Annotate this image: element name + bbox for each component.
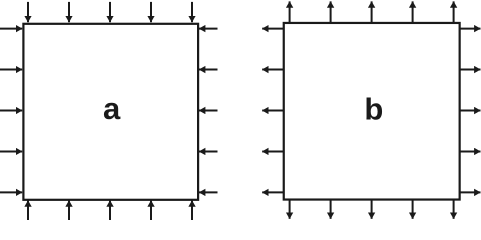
svg-text:a: a	[103, 91, 121, 126]
svg-text:b: b	[364, 91, 383, 126]
